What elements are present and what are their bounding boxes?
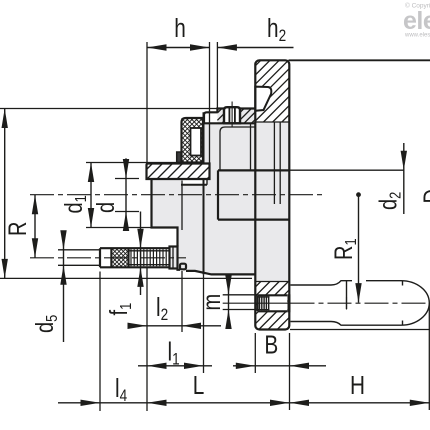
svg-text:d2: d2 [374, 192, 405, 210]
svg-text:R: R [4, 222, 32, 236]
svg-text:R1: R1 [330, 238, 361, 260]
svg-text:L: L [193, 371, 205, 400]
svg-text:h: h [174, 14, 186, 43]
svg-text:m: m [198, 294, 226, 311]
svg-text:d5: d5 [31, 315, 62, 333]
svg-text:elesa: elesa [403, 7, 430, 35]
svg-text:www.elesa.co: www.elesa.co [404, 33, 430, 39]
svg-text:B: B [264, 330, 278, 359]
svg-text:D: D [419, 189, 430, 203]
svg-text:l4: l4 [115, 374, 128, 406]
svg-text:l2: l2 [156, 293, 168, 325]
svg-text:d: d [92, 202, 120, 213]
svg-text:H: H [350, 371, 365, 400]
svg-text:h2: h2 [267, 14, 286, 46]
svg-text:d1: d1 [60, 195, 91, 213]
svg-text:l1: l1 [168, 337, 180, 369]
svg-text:f1: f1 [105, 303, 136, 316]
